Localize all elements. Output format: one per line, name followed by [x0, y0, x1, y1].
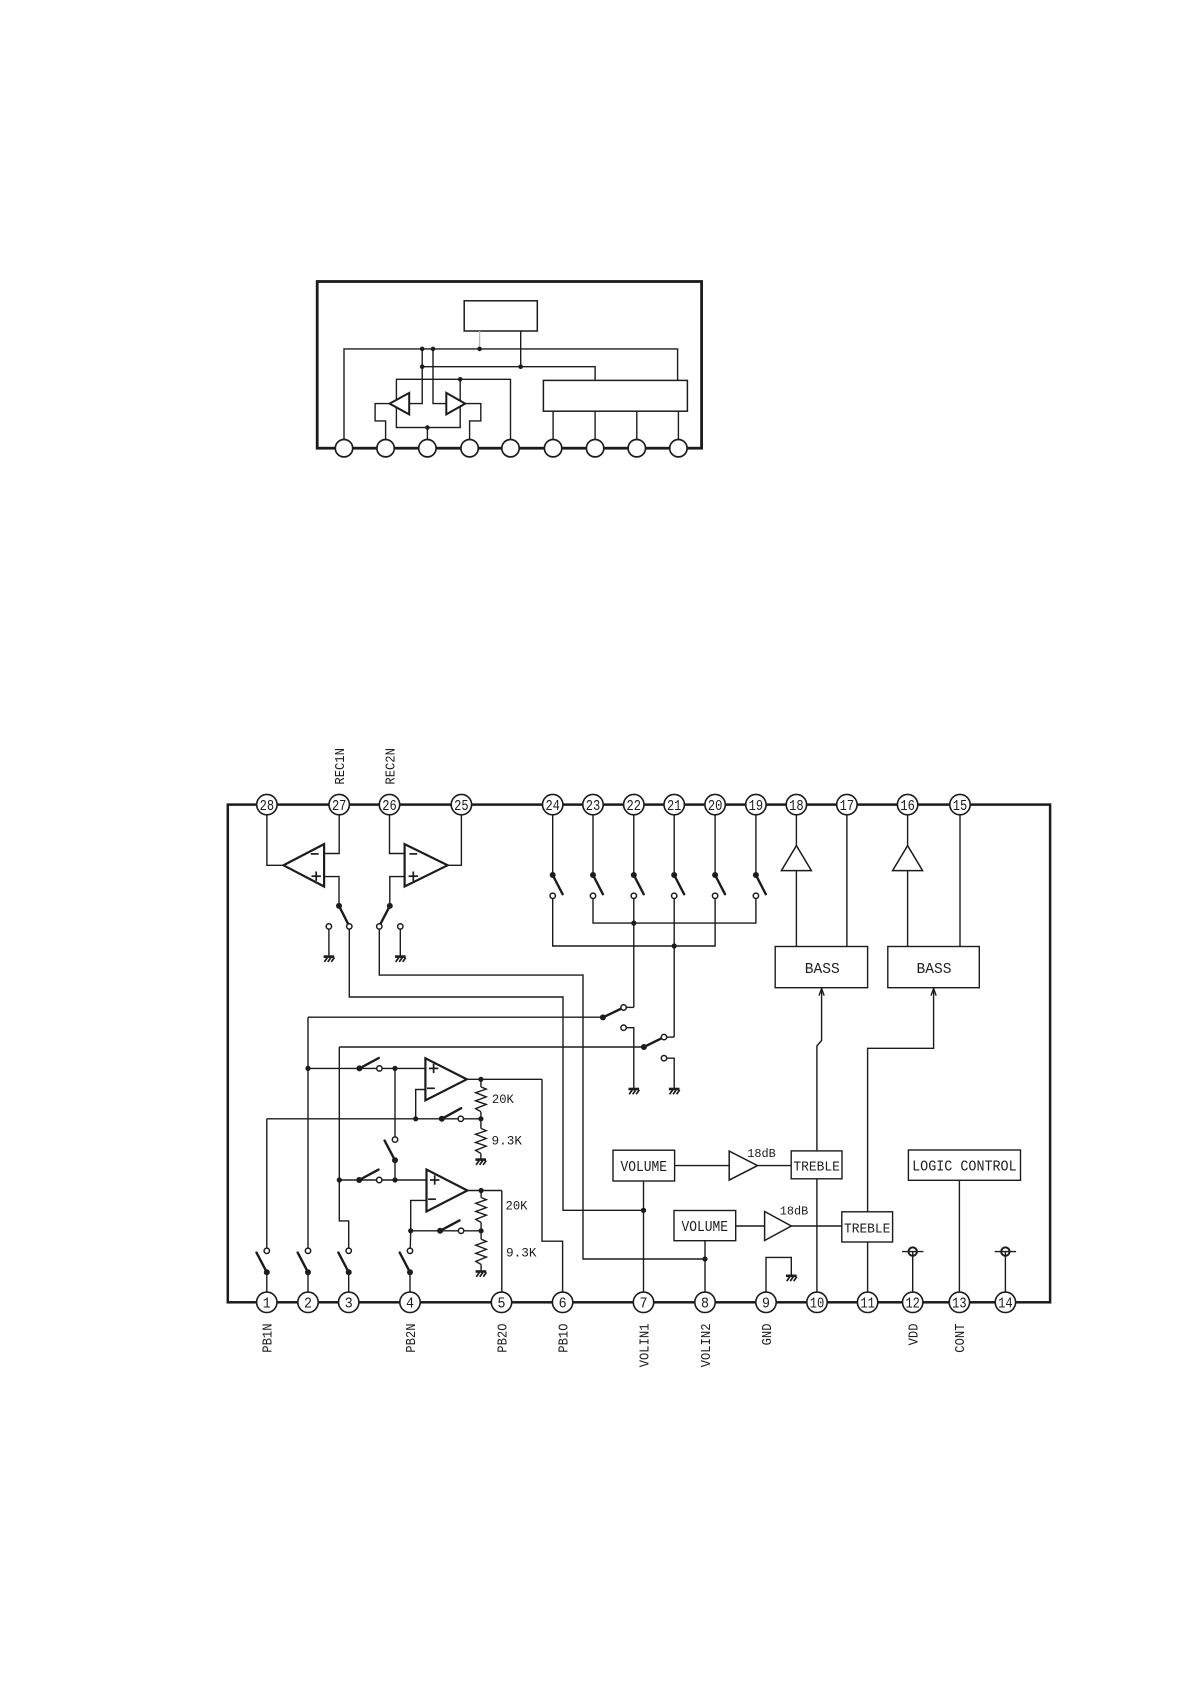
wire pin4 stem: [409, 1272, 411, 1292]
switch S-pin4: [400, 1248, 413, 1275]
wire pin1 riser: [266, 1119, 268, 1248]
pin 27: [329, 794, 349, 814]
ground GND pin9: [786, 1276, 797, 1281]
wire TREBLE2 to pin11: [867, 1242, 869, 1292]
node bus2-box: [518, 364, 523, 369]
switch S-REC1: [326, 903, 352, 929]
node pin22 net: [631, 921, 636, 926]
svg-text:VDD: VDD: [908, 1324, 923, 1346]
svg-text:VOLIN2: VOLIN2: [700, 1324, 715, 1368]
pin 16: [897, 794, 917, 814]
svg-text:VOLUME: VOLUME: [682, 1220, 729, 1236]
svg-text:PB2O: PB2O: [496, 1324, 511, 1353]
node bus1-box: [477, 347, 482, 352]
svg-text:3: 3: [345, 1296, 353, 1313]
resistor 9.3K (U3): [476, 1119, 487, 1159]
node bus1-A: [420, 347, 425, 352]
wire U3 output: [467, 1078, 542, 1080]
wire U4 out to pin5: [501, 1191, 503, 1293]
node bus2-A: [420, 364, 425, 369]
svg-text:2: 2: [304, 1296, 312, 1313]
node U3 out: [478, 1077, 483, 1082]
wire pin1 stem: [266, 1272, 268, 1292]
pin 6: [552, 1292, 572, 1312]
ground 9.3K (U3): [475, 1160, 486, 1165]
svg-text:20: 20: [708, 798, 723, 815]
switch S20: [712, 872, 725, 899]
wire net 23-22-19: [593, 899, 756, 924]
node REC2-VOLIN2: [702, 1256, 707, 1261]
wire pin9 to ground: [766, 1257, 791, 1292]
terminal CONT aux pin14: [995, 1247, 1016, 1292]
wire row A (U3 noninv): [308, 1067, 425, 1069]
svg-text:PB2N: PB2N: [405, 1324, 420, 1353]
svg-text:26: 26: [382, 798, 397, 815]
IC block diagram border: [228, 805, 1050, 1303]
svg-text:19: 19: [749, 798, 764, 815]
switch S24: [550, 872, 563, 899]
pin 10: [807, 1292, 827, 1312]
svg-text:GND: GND: [761, 1324, 776, 1346]
wire LOGIC to pin13: [958, 1180, 960, 1292]
wire pin21 stem: [673, 815, 675, 873]
wire pin2 stem: [307, 1272, 309, 1292]
svg-text:8: 8: [701, 1296, 709, 1313]
pin 15: [950, 794, 970, 814]
pin 2: [298, 1292, 318, 1312]
svg-text:21: 21: [667, 798, 682, 815]
svg-text:15: 15: [953, 798, 968, 815]
pin 13: [949, 1292, 969, 1312]
svg-text:20K: 20K: [492, 1092, 514, 1107]
switch S22: [631, 872, 644, 899]
svg-text:BASS: BASS: [805, 961, 840, 978]
svg-text:TREBLE: TREBLE: [793, 1161, 840, 1176]
node rowC-mid: [392, 1177, 397, 1182]
amp A18: [781, 846, 811, 871]
wire pin27 to U1 inv: [324, 815, 339, 854]
node fbD: [408, 1228, 413, 1233]
wire VOLUME2 to amp: [736, 1225, 765, 1227]
svg-text:10: 10: [810, 1296, 825, 1313]
svg-text:PB1N: PB1N: [262, 1324, 277, 1353]
ground REC1: [324, 957, 335, 962]
node VOLIN1: [641, 1208, 646, 1213]
wire bus2: [422, 367, 595, 381]
wire TREBLE1 to pin10: [816, 1179, 818, 1292]
wire pin19 stem: [755, 815, 757, 873]
pin 14: [995, 1292, 1015, 1312]
wire U1 noninv input: [324, 877, 339, 904]
pin 22: [624, 794, 644, 814]
svg-text:25: 25: [454, 798, 469, 815]
wire VOLUME1 to pin7: [643, 1181, 645, 1292]
wire pin28 to U1: [267, 815, 284, 866]
pin 20: [705, 794, 725, 814]
wire pin2 riser: [307, 1017, 309, 1248]
node loop-bottom: [425, 425, 430, 430]
wire pin22 stem: [633, 815, 635, 873]
wire to right buffer input: [433, 349, 446, 404]
package pin 7: [586, 440, 603, 457]
svg-text:9.3K: 9.3K: [492, 1134, 523, 1149]
IC package outline: [317, 282, 701, 449]
control logic block box: [543, 380, 687, 411]
VOLUME2 box: [674, 1211, 736, 1241]
op-amp U4 (PB2): [427, 1170, 468, 1212]
wire pin16 to amp: [907, 815, 909, 846]
switch S-fbB: [439, 1108, 464, 1122]
svg-text:23: 23: [586, 798, 601, 815]
terminal VDD: [902, 1247, 923, 1292]
op-amp U2 (REC2): [405, 844, 448, 886]
svg-text:PB1O: PB1O: [557, 1324, 572, 1353]
node pin21 net: [672, 943, 677, 948]
wire pin23 stem: [592, 815, 594, 873]
pin 4: [400, 1292, 420, 1312]
wire TREBLE1 to BASS1 input: [817, 988, 822, 1151]
pin 25: [451, 794, 471, 814]
pin 26: [379, 794, 399, 814]
wire pin15 to BASS2: [959, 815, 961, 947]
switch SPDT1: [600, 1005, 626, 1031]
svg-text:9.3K: 9.3K: [506, 1246, 537, 1261]
svg-text:VOLUME: VOLUME: [621, 1160, 668, 1176]
pin 5: [491, 1292, 511, 1312]
pin 21: [664, 794, 684, 814]
svg-text:24: 24: [545, 798, 560, 815]
ground REC2: [395, 957, 406, 962]
wire block pin8: [636, 411, 638, 439]
svg-text:18dB: 18dB: [747, 1148, 776, 1161]
resistor 20K (U4): [476, 1191, 487, 1231]
node rowC-pin3: [337, 1177, 342, 1182]
wire A1 output to pin2: [375, 404, 390, 440]
arrow BASS2 input: [931, 989, 936, 996]
switch S23: [590, 872, 603, 899]
amp 18dB-2: [765, 1212, 792, 1241]
feedback loop wire: [396, 379, 460, 427]
svg-text:TREBLE: TREBLE: [844, 1223, 891, 1238]
amp A16: [893, 846, 923, 871]
buffer A2 (right): [446, 393, 465, 415]
switch S-pin1: [257, 1248, 270, 1275]
pin 23: [583, 794, 603, 814]
wire row D (U4 feedback row): [411, 1230, 481, 1232]
svg-text:REC1N: REC1N: [334, 748, 349, 785]
wire U3 out to pin6: [542, 1079, 563, 1292]
node 20K-9.3K (U4): [479, 1228, 484, 1233]
wire SPDT1 lower contact: [626, 1028, 634, 1089]
op-amp U1 (REC1): [284, 844, 325, 886]
switch S-REC2: [377, 903, 403, 929]
wire TREBLE2 to BASS2 input: [868, 988, 934, 1212]
pin 19: [746, 794, 766, 814]
node REC1-VOLIN1: [641, 1208, 646, 1213]
op-amp U3 (PB1): [425, 1058, 466, 1100]
wire net 24-21-20: [553, 899, 715, 947]
wire SPDT2 lower contact: [667, 1058, 675, 1088]
oscillator block box: [464, 301, 537, 331]
pin 3: [339, 1292, 359, 1312]
wire REC1 to VOLIN1 net: [349, 929, 643, 1210]
svg-text:14: 14: [998, 1296, 1013, 1313]
package pin 1: [335, 440, 352, 457]
svg-text:28: 28: [260, 798, 275, 815]
package pin 9: [670, 440, 687, 457]
svg-text:18: 18: [789, 798, 804, 815]
pin 8: [695, 1292, 715, 1312]
wire pin21 branch: [667, 899, 675, 1038]
switch S-pin3: [338, 1248, 351, 1275]
package pin 6: [544, 440, 561, 457]
svg-text:20K: 20K: [506, 1199, 528, 1214]
switch S-mid (rowA to rowC): [385, 1068, 398, 1180]
switch SPDT2: [641, 1034, 667, 1061]
wire SPDT1 feed: [308, 1016, 603, 1018]
svg-text:22: 22: [627, 798, 642, 815]
node bus1-B: [431, 347, 436, 352]
TREBLE1 box: [791, 1151, 842, 1179]
LOGIC CONTROL box: [908, 1150, 1020, 1180]
pin 7: [633, 1292, 653, 1312]
pin 17: [837, 794, 857, 814]
wire VOLUME2 to pin8: [704, 1241, 706, 1292]
node rowA-pin2: [305, 1066, 310, 1071]
arrow BASS1 input: [819, 989, 824, 996]
package pin 2: [377, 440, 394, 457]
package pin 8: [628, 440, 645, 457]
wire loop to pin5: [460, 379, 510, 439]
wire VOLUME1 to amp: [675, 1165, 730, 1167]
wire amp to BASS1: [795, 871, 797, 947]
svg-text:13: 13: [952, 1296, 967, 1313]
wire pin24 stem: [552, 815, 554, 873]
wire block pin9: [677, 411, 679, 439]
package pin 3: [419, 440, 436, 457]
svg-text:16: 16: [900, 798, 915, 815]
pin 1: [257, 1292, 277, 1312]
switch S-pin2: [298, 1248, 311, 1275]
node U4 out: [479, 1188, 484, 1193]
svg-text:1: 1: [263, 1296, 271, 1313]
wire row C (U4 noninv): [339, 1179, 426, 1181]
node 20K-9.3K (U3): [478, 1116, 483, 1121]
svg-text:18dB: 18dB: [780, 1206, 809, 1219]
wire U4 output: [467, 1190, 501, 1192]
svg-text:LOGIC CONTROL: LOGIC CONTROL: [912, 1160, 1017, 1176]
resistor 9.3K (U4): [476, 1231, 487, 1271]
pin 12: [903, 1292, 923, 1312]
wire pin3 stem: [348, 1272, 350, 1292]
svg-text:5: 5: [498, 1296, 506, 1313]
wire SPDT2 feed: [339, 1046, 644, 1048]
wire pin26 to U2 inv: [390, 815, 405, 854]
ground 9.3K (U4): [476, 1272, 487, 1277]
wire REC2 gnd stem: [399, 929, 401, 956]
wire pin3 riser: [339, 1047, 348, 1248]
svg-text:7: 7: [640, 1296, 648, 1313]
wire block pin6: [552, 411, 554, 439]
ground SPDT2: [669, 1089, 680, 1094]
package pin 5: [502, 440, 519, 457]
wire row B (U3 feedback): [267, 1118, 481, 1120]
resistor 20K (U3): [476, 1079, 487, 1119]
wire amp to TREBLE1: [758, 1165, 792, 1167]
package pin 4: [461, 440, 478, 457]
svg-text:CONT: CONT: [954, 1324, 969, 1353]
wire bus1: [344, 349, 678, 440]
ground SPDT1: [629, 1089, 640, 1094]
node rowA-mid: [392, 1066, 397, 1071]
wire block pin7: [594, 411, 596, 439]
svg-text:REC2N: REC2N: [384, 748, 399, 785]
TREBLE2 box: [842, 1212, 893, 1242]
pin 28: [257, 794, 277, 814]
wire U3 feedback: [416, 1090, 426, 1119]
wire loop to pin3: [426, 428, 428, 440]
switch S-rowD: [437, 1220, 464, 1233]
wire rowD to pin4 switch: [409, 1231, 411, 1248]
pin 24: [543, 794, 563, 814]
VOLUME1 box: [613, 1150, 675, 1181]
pin 11: [857, 1292, 877, 1312]
wire pin18 to amp: [795, 815, 797, 846]
buffer A1 (left): [390, 393, 410, 415]
svg-text:12: 12: [905, 1296, 920, 1313]
switch S19: [753, 872, 766, 899]
amp 18dB-1: [729, 1151, 757, 1180]
switch S-rowC: [356, 1170, 382, 1183]
wire REC1 gnd stem: [328, 929, 330, 956]
switch S21: [671, 872, 684, 899]
wire A2 output to pin4: [465, 404, 481, 440]
svg-text:27: 27: [332, 798, 347, 815]
wire box to bus1 (gray): [479, 331, 481, 349]
wire pin25 to U2 out: [448, 815, 462, 866]
BASS2 box: [888, 947, 980, 988]
svg-text:9: 9: [762, 1296, 770, 1313]
wire U2 noninv input: [390, 877, 405, 904]
wire to left buffer input: [409, 349, 422, 404]
svg-text:4: 4: [406, 1296, 414, 1313]
node loop-top: [458, 377, 463, 382]
pin 9: [756, 1292, 776, 1312]
wire pin22 branch: [626, 899, 634, 1008]
node fbB: [413, 1116, 418, 1121]
pin 18: [786, 794, 806, 814]
wire REC2 to VOLIN2 net: [379, 929, 705, 1259]
svg-text:6: 6: [559, 1296, 567, 1313]
svg-text:VOLIN1: VOLIN1: [638, 1324, 653, 1368]
wire pin17 to BASS1: [846, 815, 848, 947]
svg-text:17: 17: [840, 798, 855, 815]
BASS1 box: [775, 947, 867, 988]
wire pin20 stem: [714, 815, 716, 873]
switch S-rowA: [356, 1058, 382, 1071]
wire box to bus2: [520, 331, 522, 367]
wire U4 feedback: [411, 1200, 427, 1230]
wire amp to TREBLE2: [791, 1225, 842, 1227]
wire amp to BASS2: [907, 871, 909, 947]
svg-text:11: 11: [860, 1296, 875, 1313]
svg-text:BASS: BASS: [917, 961, 952, 978]
